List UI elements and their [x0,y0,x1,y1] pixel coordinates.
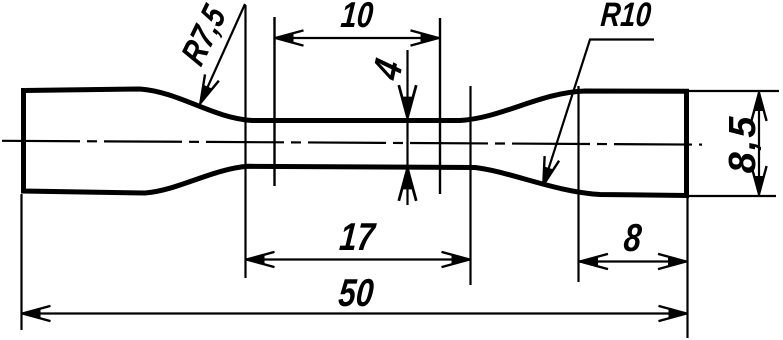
dimension 8 arrow left [579,254,608,269]
dimension 17 arrow left [246,252,275,267]
dimension 10 arrow left [275,30,304,45]
leader R7,5 arrowhead [193,74,219,107]
centerline (dash-dot axis) [2,141,702,145]
svg-text:R10: R10 [599,0,652,34]
svg-text:10: 10 [339,0,375,35]
dimension 8 arrow right [658,254,687,269]
dimension 4 line [406,50,408,205]
leader R7,5 line [200,4,245,104]
dimension 50 arrow left [22,306,51,321]
dimension 8,5 line [758,92,760,195]
dimension 4 arrow up [399,168,416,201]
dimension 8,5 arrow up [751,92,766,121]
dimension 50 line [22,312,688,314]
specimen outline (dog-bone tensile specimen) [24,89,687,196]
dimension 17 line [246,258,471,260]
svg-text:50: 50 [337,272,376,315]
extension line right tangent [469,86,471,285]
dimension 4 arrow down [399,85,416,118]
dimension 10 arrow right [411,30,440,45]
extension line left tangent [244,5,246,278]
extension line grip start [577,86,579,282]
extension line right end [686,196,688,338]
dimension 17 arrow right [442,252,471,267]
dimension 10 line [275,37,440,39]
dimension 50 arrow right [659,306,688,321]
leader R10 line [543,40,654,187]
gauge mark right [439,18,441,194]
extension line top right [689,90,779,92]
dimension 8 line [579,260,687,262]
extension line bottom right [689,195,776,197]
dimension 8,5 arrow down [751,166,766,195]
svg-text:17: 17 [338,216,378,259]
extension line left end [20,194,22,330]
svg-text:8,5: 8,5 [722,115,764,174]
gauge mark left [273,17,275,186]
leader R10 arrowhead [536,156,559,188]
